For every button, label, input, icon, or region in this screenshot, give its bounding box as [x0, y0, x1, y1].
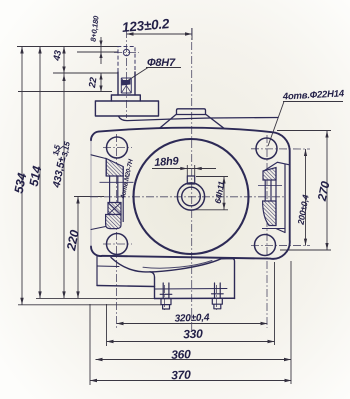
arrows 370: [90, 379, 97, 382]
corner hole BR: [255, 235, 276, 256]
right port chamfer: [263, 162, 290, 171]
left holes vertical centerline / 320 ext: [116, 134, 118, 330]
extension base-bottom line y298.4: [36, 297, 155, 299]
inner dish curve: [143, 261, 212, 269]
shaft block: [118, 72, 135, 95]
extension line keyway y52: [77, 51, 118, 53]
dimension 330 line: [107, 341, 275, 343]
right notch bottom chamfer: [276, 229, 285, 233]
arrows 330: [107, 340, 114, 343]
dimension 514 line: [39, 47, 41, 299]
arrows 320: [117, 322, 124, 325]
dimension 22 line: [100, 73, 102, 92]
left port hatched top: [106, 159, 123, 177]
key slot: [187, 176, 194, 184]
left port outer edges: [106, 159, 123, 223]
keyway dark blob: [122, 80, 131, 86]
right port right edge: [275, 168, 277, 226]
dimension 320 line: [117, 323, 268, 325]
extension line y91.5: [18, 91, 112, 93]
left rear bracket vertical: [96, 255, 98, 286]
left notch top chamfer: [91, 155, 106, 159]
64h11 ext bottom: [193, 209, 228, 211]
hub outer circle: [177, 183, 204, 210]
right bolt centerline: [216, 285, 218, 310]
rear bottom tangent edge: [97, 265, 119, 268]
arrows 534: [20, 47, 23, 54]
svg-text:330: 330: [183, 327, 203, 342]
right port hatched top: [263, 168, 276, 181]
right port tick line: [258, 185, 282, 187]
hump cap: [177, 109, 206, 115]
flange left edge (thin): [90, 140, 92, 246]
dimension 123 line: [127, 33, 193, 35]
arrows 43 / 433.5: [62, 47, 65, 54]
TL hole horizontal centerline: [103, 147, 132, 149]
F8 hole horizontal centerline: [114, 52, 139, 54]
shaft vertical axis: [126, 30, 128, 118]
dimension 360 line: [96, 359, 292, 361]
dimension 370 line: [90, 380, 292, 382]
leader F8H7: [126, 68, 149, 83]
bottom baseline y304.8: [18, 304, 161, 306]
corner hole TL: [107, 137, 128, 158]
hidden shaft outline: [118, 47, 135, 73]
right holes vertical centerline / 320 ext: [266, 135, 268, 328]
dimension 270 line: [326, 131, 328, 251]
shaft step: [111, 95, 140, 101]
svg-text:370: 370: [171, 368, 191, 383]
svg-text:18h9: 18h9: [154, 155, 180, 169]
ext vert x106.5: [106, 304, 108, 346]
shaft keyway walls: [121, 78, 131, 93]
left rear bracket bottom: [97, 286, 155, 287]
BL hole horizontal centerline: [103, 243, 132, 245]
main horizontal axis: [90, 196, 285, 198]
hole F8 circle: [123, 49, 129, 55]
base bottom edge: [155, 297, 235, 299]
4otv underline: [283, 101, 343, 103]
svg-text:320±0,4: 320±0,4: [174, 312, 210, 324]
cap block: [95, 101, 158, 116]
left foot bolt: [160, 283, 172, 309]
arrows 123: [127, 32, 134, 35]
arrows 8+0.180: [99, 41, 102, 47]
corner hole TR: [256, 138, 277, 159]
svg-text:Ф8Н7: Ф8Н7: [147, 57, 176, 69]
TR hole horizontal centerline (extends right for 200 dim): [251, 148, 310, 150]
arrows 200: [304, 149, 307, 156]
arrows 64h11: [222, 177, 225, 184]
right foot bolt: [212, 283, 224, 309]
extension line top datum y46.5: [17, 46, 118, 48]
flange plate outline: [91, 128, 290, 259]
arrows 22: [99, 73, 102, 80]
dimension 534 line: [21, 47, 23, 305]
left port channel: [110, 176, 118, 203]
left port bottom wedge: [106, 215, 121, 229]
top plate edge: [119, 116, 279, 120]
ext vert x192 top: [191, 28, 193, 40]
extension line y73: [53, 72, 118, 74]
dimension 8+0.180 line: [100, 37, 102, 64]
hub bore circle: [182, 187, 201, 206]
keyway cross: [121, 78, 131, 93]
right port hatched bottom: [263, 201, 276, 226]
hump trapezoid: [160, 115, 225, 129]
left bolt centerline: [164, 285, 166, 310]
svg-text:360: 360: [171, 347, 191, 362]
270 ext top: [277, 130, 331, 132]
arrows 220: [76, 197, 79, 204]
base left edge: [150, 272, 155, 299]
270 ext bottom: [280, 249, 331, 251]
left port X-box: [108, 203, 121, 215]
rear body dish profile: [111, 258, 235, 299]
flange inner right edge: [284, 164, 286, 232]
arrows 18h9: [180, 167, 187, 170]
extension line 220 top: [74, 196, 104, 198]
dim 18h9 shelf: [152, 168, 216, 170]
ext vert x90: [89, 304, 91, 385]
main vertical axis: [191, 28, 193, 332]
arrows 514: [38, 47, 41, 54]
arrows 360: [96, 358, 103, 361]
corner hole BL: [107, 234, 128, 255]
leader 4otv F22: [268, 102, 284, 147]
right port bottom line: [262, 228, 285, 230]
BR hole horizontal centerline: [251, 245, 310, 247]
big circle: [134, 139, 249, 254]
left notch bottom chamfer: [91, 227, 106, 230]
arrows 270: [325, 131, 328, 138]
dimension 220 line: [77, 197, 79, 299]
right port channel: [265, 180, 271, 201]
ext vert x291: [290, 261, 292, 384]
18h9 ext lines: [186, 165, 188, 176]
F8H7 underline: [146, 67, 181, 69]
dimension 433.5 line: [63, 47, 65, 299]
ext vert x274.5: [274, 262, 276, 345]
64h11 ext top: [196, 176, 228, 178]
tolerance slash: [56, 146, 64, 152]
base top edge: [155, 288, 228, 291]
dimension 64h11 line: [223, 177, 225, 210]
dimension 200 line: [305, 149, 307, 246]
left port tick line: [100, 181, 134, 183]
